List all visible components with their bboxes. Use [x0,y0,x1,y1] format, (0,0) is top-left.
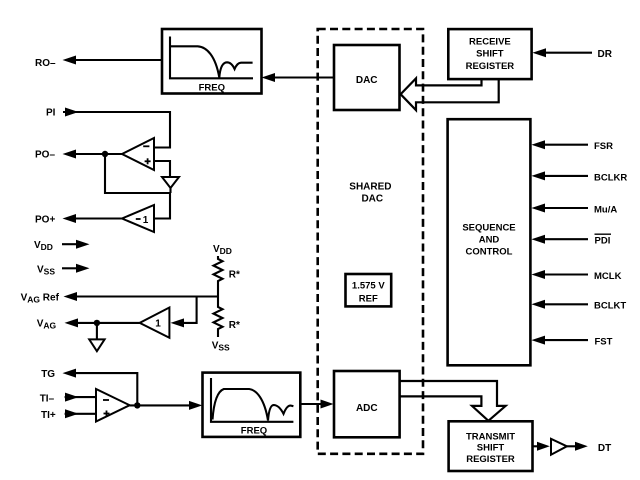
svg-text:Mu/A: Mu/A [594,204,617,215]
svg-text:REF: REF [359,294,378,305]
svg-text:BCLKR: BCLKR [594,172,627,183]
svg-text:PDI: PDI [595,236,611,247]
svg-text:FREQ: FREQ [241,425,267,436]
svg-text:ADC: ADC [356,403,378,414]
svg-text:R*: R* [229,320,240,331]
svg-text:1: 1 [143,215,149,226]
svg-text:VDD: VDD [34,240,53,252]
svg-text:VAG Ref: VAG Ref [21,293,60,305]
svg-text:PI: PI [46,108,56,119]
svg-text:PO–: PO– [35,150,55,161]
svg-text:DR: DR [598,49,613,60]
svg-text:VSS: VSS [37,264,55,276]
svg-text:RECEIVE: RECEIVE [469,37,511,48]
svg-text:BCLKT: BCLKT [594,301,626,312]
svg-text:1.575 V: 1.575 V [352,281,385,292]
svg-text:TG: TG [41,369,55,380]
svg-text:SEQUENCE: SEQUENCE [462,223,515,234]
svg-text:TRANSMIT: TRANSMIT [466,432,515,443]
svg-text:DAC: DAC [361,194,383,205]
svg-text:DT: DT [598,443,611,454]
svg-text:SHIFT: SHIFT [476,49,504,60]
svg-text:RO–: RO– [35,58,56,69]
svg-text:SHARED: SHARED [349,182,391,193]
svg-text:FSR: FSR [594,141,613,152]
svg-text:PO+: PO+ [35,214,55,225]
svg-text:SHIFT: SHIFT [477,443,505,454]
svg-text:VAG: VAG [37,318,57,330]
svg-text:1: 1 [155,319,161,330]
svg-text:R*: R* [229,270,240,281]
svg-text:VSS: VSS [212,341,230,353]
svg-text:VDD: VDD [213,244,232,256]
svg-text:FST: FST [595,337,613,348]
svg-text:AND: AND [479,235,500,246]
svg-text:CONTROL: CONTROL [466,247,513,258]
svg-text:TI+: TI+ [41,410,56,421]
svg-text:MCLK: MCLK [594,271,622,282]
svg-text:DAC: DAC [356,75,378,86]
svg-text:REGISTER: REGISTER [466,454,515,465]
svg-text:REGISTER: REGISTER [466,61,515,72]
svg-text:FREQ: FREQ [199,83,225,94]
svg-text:TI–: TI– [40,393,55,404]
